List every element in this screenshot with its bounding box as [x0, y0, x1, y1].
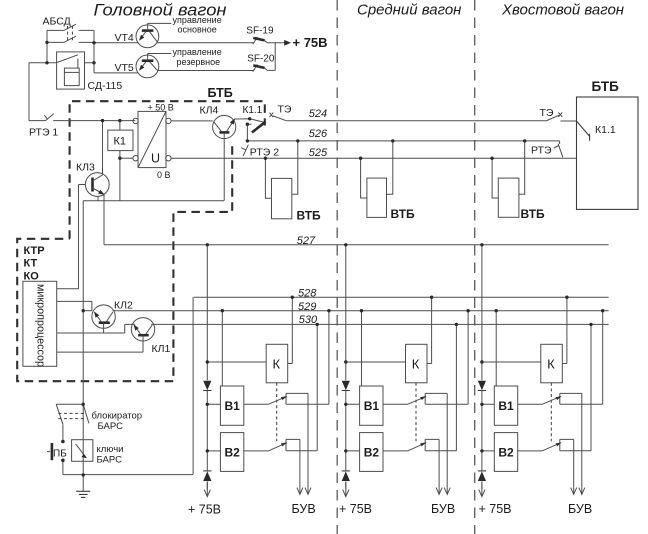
svg-text:527: 527 — [297, 235, 316, 247]
svg-text:ТЭ: ТЭ — [278, 103, 292, 115]
svg-text:529: 529 — [298, 301, 316, 313]
svg-text:В2: В2 — [225, 446, 241, 460]
svg-text:530: 530 — [299, 314, 318, 326]
svg-text:К: К — [412, 357, 420, 372]
svg-text:КЛ2: КЛ2 — [114, 300, 133, 312]
svg-text:526: 526 — [309, 128, 328, 140]
svg-text:КТР: КТР — [24, 245, 45, 257]
svg-text:блокиратор: блокиратор — [92, 410, 143, 421]
svg-text:РТЭ 2: РТЭ 2 — [250, 146, 279, 158]
svg-text:БТБ: БТБ — [592, 79, 620, 94]
svg-text:микропроцессор: микропроцессор — [35, 284, 47, 367]
svg-text:+ 75В: + 75В — [188, 503, 221, 517]
svg-text:РТЭ 1: РТЭ 1 — [29, 127, 58, 139]
svg-text:К1: К1 — [114, 136, 127, 148]
svg-text:К1.1: К1.1 — [595, 124, 616, 136]
svg-text:Средний вагон: Средний вагон — [357, 2, 461, 19]
svg-text:VT4: VT4 — [115, 32, 134, 44]
svg-text:SF-19: SF-19 — [246, 25, 274, 36]
svg-text:КЛ1: КЛ1 — [152, 343, 171, 355]
svg-text:ВТБ: ВТБ — [391, 207, 416, 221]
svg-text:SF-20: SF-20 — [247, 53, 275, 64]
svg-text:БТБ: БТБ — [208, 86, 233, 100]
svg-text:КТ: КТ — [24, 257, 38, 269]
svg-text:Хвостовой вагон: Хвостовой вагон — [501, 2, 624, 19]
svg-text:В2: В2 — [498, 446, 514, 460]
svg-text:КО: КО — [24, 271, 40, 283]
svg-text:КЛ3: КЛ3 — [76, 162, 95, 174]
svg-text:ВТБ: ВТБ — [297, 208, 322, 222]
svg-text:БУВ: БУВ — [568, 502, 592, 516]
svg-text:В1: В1 — [498, 399, 514, 413]
svg-text:БАРС: БАРС — [97, 454, 123, 465]
svg-text:ТЭ: ТЭ — [540, 107, 554, 119]
svg-text:КЛ4: КЛ4 — [200, 105, 219, 117]
svg-text:U: U — [151, 152, 160, 166]
svg-text:управление: управление — [173, 15, 222, 25]
svg-text:К1.1: К1.1 — [243, 105, 263, 116]
svg-text:РТЭ: РТЭ — [531, 145, 552, 157]
svg-text:ключи: ключи — [97, 444, 124, 455]
svg-text:VT5: VT5 — [115, 62, 134, 74]
svg-text:БУВ: БУВ — [431, 502, 455, 516]
svg-text:524: 524 — [309, 108, 327, 120]
svg-text:ВТБ: ВТБ — [521, 207, 546, 221]
svg-text:В1: В1 — [364, 399, 380, 413]
svg-text:К: К — [547, 357, 555, 372]
svg-text:В1: В1 — [225, 399, 241, 413]
svg-text:управление: управление — [173, 47, 222, 57]
svg-text:АБСД: АБСД — [43, 15, 71, 27]
svg-text:БУВ: БУВ — [292, 502, 316, 516]
svg-text:0 В: 0 В — [157, 170, 171, 180]
svg-text:основное: основное — [178, 25, 217, 35]
svg-text:+ 75В: + 75В — [339, 502, 372, 516]
svg-text:К: К — [273, 357, 281, 372]
svg-text:+ 75В: + 75В — [479, 502, 512, 516]
svg-text:резервное: резервное — [177, 57, 221, 67]
svg-text:525: 525 — [309, 147, 328, 159]
svg-text:+ 75В: + 75В — [293, 35, 328, 50]
svg-text:СД-115: СД-115 — [88, 80, 123, 92]
svg-text:528: 528 — [298, 287, 317, 299]
svg-text:ПБ: ПБ — [53, 449, 67, 460]
svg-text:+ 50 В: + 50 В — [148, 103, 174, 113]
svg-text:БАРС: БАРС — [98, 421, 124, 432]
svg-text:В2: В2 — [364, 446, 380, 460]
